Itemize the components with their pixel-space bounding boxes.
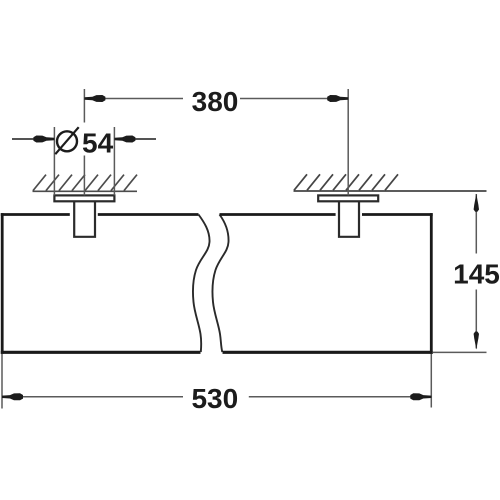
arrow Ø54 right xyxy=(132,138,156,140)
extension line flange left edge (Ø54) xyxy=(53,127,55,195)
break squiggle right xyxy=(212,215,228,353)
arrow 530 right xyxy=(410,393,431,400)
bracket left (flange and stem) xyxy=(54,195,114,236)
svg-text:530: 530 xyxy=(191,383,238,414)
dimension line 380 xyxy=(84,98,348,100)
svg-text:54: 54 xyxy=(82,127,114,158)
bracket right (flange and stem) xyxy=(318,195,378,236)
extension line shelf bottom right (145 dim) xyxy=(433,351,487,353)
arrow Ø54 left xyxy=(12,138,36,140)
wall hatch right with extension line for 145 dimension xyxy=(294,174,487,191)
extension line shelf bottom right corner (530 dim) xyxy=(430,354,432,408)
dimension line 145 xyxy=(475,194,477,349)
shelf outline right section xyxy=(220,213,433,354)
arrow 530 left xyxy=(2,393,23,400)
arrow 145 down xyxy=(474,332,479,350)
arrow 145 up xyxy=(474,194,479,212)
extension line left bracket centre (380 dim) xyxy=(83,89,85,195)
extension line flange right edge (Ø54) xyxy=(113,127,115,195)
extension line shelf bottom left (530 dim) xyxy=(1,354,3,409)
shelf outline left section xyxy=(1,213,201,354)
arrow 380 right xyxy=(327,95,348,102)
label Ø symbol xyxy=(57,131,77,151)
wall hatch left xyxy=(33,175,138,192)
break squiggle left xyxy=(193,215,210,353)
extension line right bracket centre (380 dim) xyxy=(347,89,349,195)
arrow 380 left xyxy=(84,95,105,102)
dimension line 530 xyxy=(2,396,431,398)
svg-text:145: 145 xyxy=(453,258,500,289)
svg-text:380: 380 xyxy=(192,86,239,117)
